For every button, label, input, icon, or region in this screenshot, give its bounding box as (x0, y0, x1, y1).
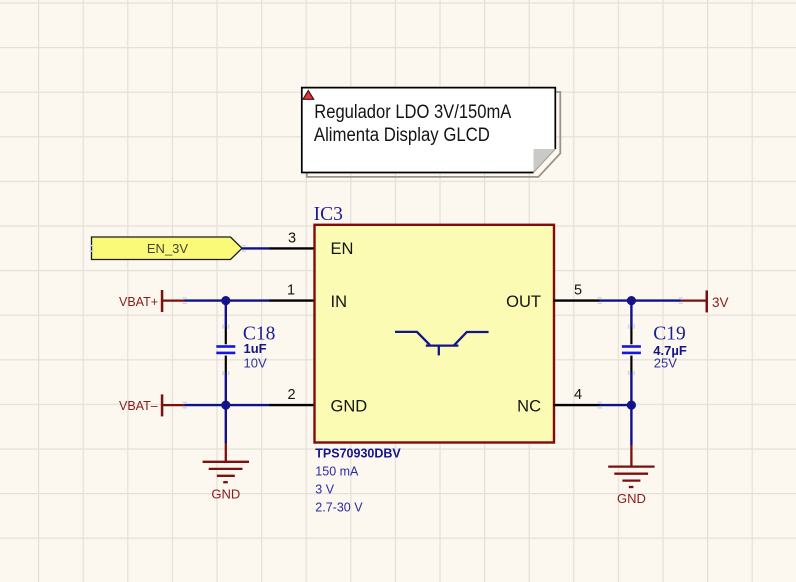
ground wire left (225, 405, 227, 443)
svg-text:VBAT–: VBAT– (119, 399, 158, 413)
power port VBAT+ (119, 290, 185, 312)
pin 3 (270, 247, 315, 249)
wire VBAT- to pin 2 (185, 404, 271, 406)
ground GND right (608, 445, 654, 506)
svg-text:GND: GND (211, 486, 240, 501)
svg-text:VBAT+: VBAT+ (119, 295, 158, 309)
svg-text:Alimenta Display GLCD: Alimenta Display GLCD (314, 125, 490, 146)
note marker triangle (303, 91, 314, 100)
wire OUT net (600, 299, 681, 301)
connection marker at EN_3V port left edge (90, 245, 94, 252)
capacitor C19 (622, 301, 641, 406)
svg-text:3 V: 3 V (315, 482, 334, 496)
ground GND left (203, 443, 249, 501)
svg-text:1uF: 1uF (244, 341, 267, 356)
svg-text:Regulador LDO 3V/150mA: Regulador LDO 3V/150mA (314, 102, 511, 123)
power port VBAT- (119, 394, 185, 416)
port EN_3V (92, 237, 243, 260)
regulator symbol inside IC (395, 332, 489, 356)
wire VBAT+ to pin 1 (185, 299, 271, 301)
connection marker at C18 bottom pin (222, 371, 229, 375)
svg-text:25V: 25V (654, 355, 677, 370)
pin 5 (554, 299, 600, 301)
power port 3V (681, 290, 729, 312)
svg-text:150 mA: 150 mA (315, 464, 359, 478)
svg-text:EN_3V: EN_3V (147, 241, 189, 256)
svg-text:2: 2 (287, 387, 295, 403)
wire EN_3V to pin 3 (242, 247, 270, 249)
connection marker at 3V stub end (679, 297, 683, 304)
svg-text:OUT: OUT (506, 293, 541, 311)
junction node IN (221, 296, 230, 305)
junction node OUT (627, 296, 636, 305)
svg-text:TPS70930DBV: TPS70930DBV (315, 447, 401, 461)
svg-text:IN: IN (331, 293, 348, 311)
svg-text:4: 4 (574, 387, 582, 403)
connection marker at EN_3V port tip (242, 245, 246, 252)
svg-text:NC: NC (517, 397, 541, 415)
svg-text:GND: GND (617, 491, 646, 506)
connection marker at VBAT- stub end (183, 402, 187, 409)
connection marker at VBAT+ stub end (183, 297, 187, 304)
IC IC3 (TPS70930DBV regulator) body (315, 225, 555, 443)
svg-text:3V: 3V (712, 295, 729, 310)
svg-text:2.7-30 V: 2.7-30 V (315, 500, 363, 514)
junction node GND-left (221, 401, 230, 410)
note box (302, 88, 556, 173)
svg-text:5: 5 (574, 283, 582, 299)
capacitor C18 (216, 301, 235, 406)
svg-text:GND: GND (331, 397, 368, 415)
junction node NC (627, 401, 636, 410)
ground wire right (630, 405, 632, 445)
connection marker at C19 top pin (628, 325, 635, 329)
wire NC net (600, 404, 632, 406)
pin 1 (270, 299, 315, 301)
pin 4 (554, 404, 600, 406)
svg-text:3: 3 (288, 230, 296, 246)
svg-text:IC3: IC3 (314, 204, 343, 225)
svg-text:EN: EN (331, 240, 354, 258)
connection marker at pin 5 end (598, 297, 602, 304)
note shadow (307, 92, 561, 177)
pin 2 (270, 404, 315, 406)
connection marker at C18 top pin (222, 325, 229, 329)
connection marker at C19 bottom pin (628, 371, 635, 375)
svg-text:10V: 10V (244, 356, 267, 371)
svg-text:C19: C19 (653, 324, 686, 345)
note fold corner (534, 149, 556, 173)
svg-text:1: 1 (287, 283, 295, 299)
connection marker at pin 4 end (598, 402, 602, 409)
